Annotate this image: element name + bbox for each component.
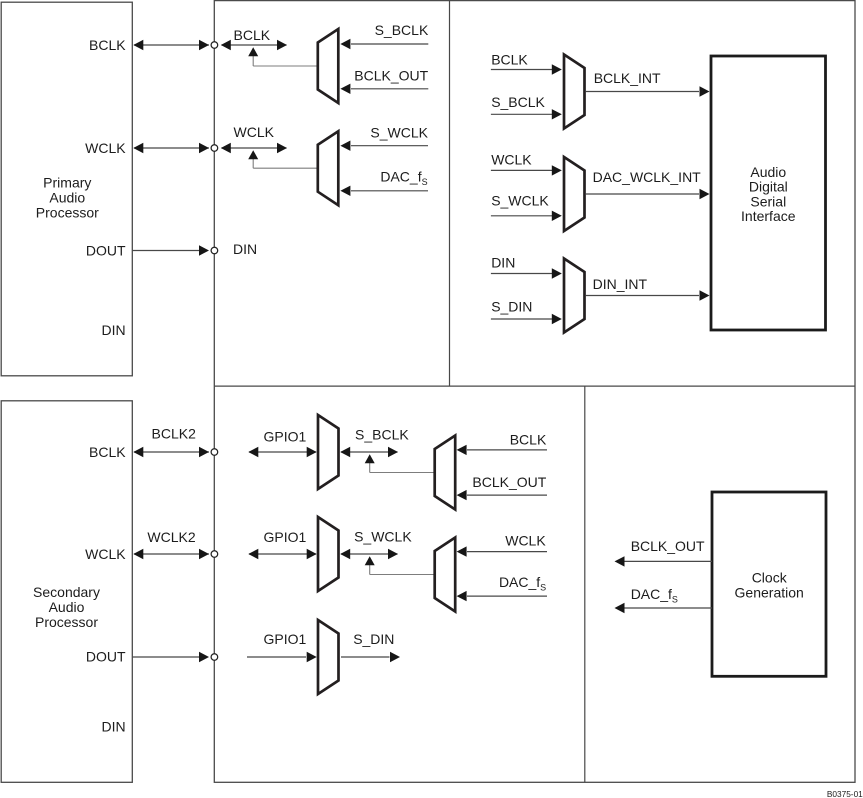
svg-text:DAC_fS: DAC_fS	[631, 586, 678, 605]
svg-text:BCLK: BCLK	[510, 431, 547, 447]
svg-text:BCLK_OUT: BCLK_OUT	[472, 474, 546, 490]
box Secondary Audio Processor	[1, 401, 132, 783]
mux GPIO1 S_BCLK	[318, 415, 339, 489]
svg-text:GPIO1: GPIO1	[264, 631, 307, 647]
wire GPIO1 to S_WCLK mux (bidirectional)	[248, 549, 316, 559]
wire DAC_fS input to WCLK mux	[340, 186, 428, 196]
wire DAC_fS input to S_WCLK source mux	[457, 591, 547, 601]
mux WCLK source select	[318, 131, 339, 205]
wire S_BCLK into BCLK_INT mux	[491, 109, 562, 119]
wire DOUT secondary box to S_DIN node	[132, 652, 209, 662]
mux BCLK_INT select	[564, 55, 585, 129]
wire S_BCLK input to BCLK mux	[340, 39, 428, 49]
box main device outline	[214, 1, 855, 783]
svg-text:S_BCLK: S_BCLK	[491, 94, 545, 110]
svg-text:BCLK: BCLK	[89, 37, 126, 53]
svg-text:Serial: Serial	[750, 193, 786, 209]
svg-text:S_DIN: S_DIN	[353, 631, 394, 647]
node WCLK2 pin	[211, 551, 218, 558]
mux DIN_INT select	[564, 259, 585, 333]
svg-text:BCLK: BCLK	[89, 444, 126, 460]
wire WCLK into DAC_WCLK_INT mux	[491, 165, 562, 175]
wire BCLK into BCLK_INT mux	[491, 64, 562, 74]
box Audio Digital Serial Interface	[711, 56, 826, 330]
svg-text:BCLK_INT: BCLK_INT	[594, 70, 661, 86]
wire BCLK_OUT from Clock Generation	[615, 556, 713, 566]
wire GPIO1 to S_DIN mux	[247, 652, 317, 662]
svg-text:Audio: Audio	[49, 599, 85, 615]
svg-text:Primary: Primary	[43, 175, 91, 191]
svg-text:DAC_fS: DAC_fS	[380, 168, 427, 187]
wire WCLK primary box to node (bidirectional)	[133, 143, 209, 153]
mux GPIO1 S_DIN	[318, 620, 339, 694]
wire S_WCLK bidirectional stub	[340, 549, 398, 559]
mux GPIO1 S_WCLK	[318, 517, 339, 591]
node WCLK pin	[211, 145, 218, 152]
svg-text:GPIO1: GPIO1	[264, 529, 307, 545]
wire BCLK_INT mux output to Audio Digital Serial Interface	[586, 86, 710, 96]
mux S_WCLK source select	[435, 538, 456, 612]
svg-text:Audio: Audio	[49, 190, 85, 206]
wire S_WCLK input to WCLK mux	[340, 141, 428, 151]
svg-text:DIN: DIN	[101, 322, 125, 338]
svg-text:DIN_INT: DIN_INT	[593, 276, 648, 292]
svg-text:DOUT: DOUT	[86, 242, 126, 258]
divider horizontal mid	[214, 385, 855, 387]
wire DOUT primary box to DIN node	[132, 245, 209, 255]
svg-text:Audio: Audio	[750, 164, 786, 180]
wire BCLK input to S_BCLK source mux	[457, 445, 547, 455]
wire WCLK input to S_WCLK source mux	[457, 546, 547, 556]
wire S_BCLK source mux output join	[365, 454, 434, 472]
svg-text:DIN: DIN	[233, 241, 257, 257]
svg-text:BCLK_OUT: BCLK_OUT	[631, 538, 705, 554]
wire DAC_fS from Clock Generation	[615, 603, 713, 613]
box Clock Generation	[712, 492, 826, 676]
svg-text:S_WCLK: S_WCLK	[370, 125, 428, 141]
wire DIN_INT mux output to Audio Digital Serial Interface	[586, 290, 710, 300]
wire S_WCLK source mux output join	[365, 556, 434, 574]
mux DAC_WCLK_INT select	[564, 157, 585, 231]
svg-text:DIN: DIN	[101, 719, 125, 735]
svg-text:Processor: Processor	[35, 614, 98, 630]
wire DAC_WCLK_INT mux output to Audio Digital Serial Interface	[586, 189, 710, 199]
svg-text:DIN: DIN	[491, 255, 515, 271]
wire WCLK node to internal (bidirectional)	[221, 143, 287, 153]
svg-text:Generation: Generation	[735, 584, 804, 600]
wire S_DIN output stub	[341, 652, 400, 662]
svg-text:DOUT: DOUT	[86, 649, 126, 665]
svg-text:S_DIN: S_DIN	[491, 299, 532, 315]
svg-text:S_WCLK: S_WCLK	[491, 192, 549, 208]
mux S_BCLK source select	[435, 436, 456, 510]
svg-text:BCLK_OUT: BCLK_OUT	[354, 67, 428, 83]
label Secondary Audio Processor	[33, 584, 100, 630]
box Primary Audio Processor	[1, 2, 132, 376]
svg-text:Interface: Interface	[741, 208, 796, 224]
node DOUT pin (secondary)	[211, 654, 218, 661]
node DIN pin (primary)	[211, 247, 218, 254]
label Audio Digital Serial Interface	[741, 164, 796, 224]
svg-text:S_BCLK: S_BCLK	[375, 22, 429, 38]
node BCLK2 pin	[211, 449, 218, 456]
wire WCLK mux output to WCLK line (select join)	[248, 150, 317, 168]
svg-text:BCLK2: BCLK2	[152, 426, 197, 442]
svg-text:S_WCLK: S_WCLK	[354, 529, 412, 545]
node BCLK pin	[211, 42, 218, 49]
svg-text:S_BCLK: S_BCLK	[355, 426, 409, 442]
wire S_WCLK into DAC_WCLK_INT mux	[491, 211, 562, 221]
wire BCLK_OUT input to S_BCLK source mux	[457, 490, 547, 500]
wire S_DIN into DIN_INT mux	[491, 314, 562, 324]
svg-text:GPIO1: GPIO1	[264, 429, 307, 445]
mux BCLK source select	[318, 29, 339, 103]
svg-text:WCLK: WCLK	[85, 140, 126, 156]
svg-text:WCLK: WCLK	[85, 546, 126, 562]
svg-text:DAC_WCLK_INT: DAC_WCLK_INT	[593, 169, 702, 185]
wire S_BCLK bidirectional stub	[340, 447, 398, 457]
wire BCLK primary box to node (bidirectional)	[133, 40, 209, 50]
svg-text:WCLK: WCLK	[505, 533, 546, 549]
wire BCLK node to internal (bidirectional)	[221, 40, 287, 50]
svg-text:WCLK2: WCLK2	[147, 529, 195, 545]
wire GPIO1 to S_BCLK mux (bidirectional)	[248, 447, 316, 457]
svg-text:WCLK: WCLK	[491, 152, 532, 168]
label Primary Audio Processor	[36, 175, 99, 221]
wire DIN into DIN_INT mux	[491, 268, 562, 278]
divider vertical bottom (x=584.8)	[584, 386, 586, 782]
svg-text:BCLK: BCLK	[234, 27, 271, 43]
svg-text:Processor: Processor	[36, 205, 99, 221]
svg-text:B0375-01: B0375-01	[827, 789, 863, 798]
svg-text:Digital: Digital	[749, 179, 788, 195]
wire BCLK_OUT input to BCLK mux	[340, 84, 428, 94]
label Clock Generation	[735, 570, 804, 601]
svg-text:WCLK: WCLK	[234, 124, 275, 140]
divider vertical top (x=449.5)	[449, 1, 451, 387]
wire WCLK2 secondary box to node (bidirectional)	[133, 549, 209, 559]
svg-text:Clock: Clock	[752, 570, 788, 586]
wire BCLK2 secondary box to node (bidirectional)	[133, 447, 209, 457]
svg-text:DAC_fS: DAC_fS	[499, 574, 546, 593]
wire BCLK mux output to BCLK line (select join)	[248, 47, 317, 66]
svg-text:Secondary: Secondary	[33, 584, 100, 600]
svg-text:BCLK: BCLK	[491, 52, 528, 68]
